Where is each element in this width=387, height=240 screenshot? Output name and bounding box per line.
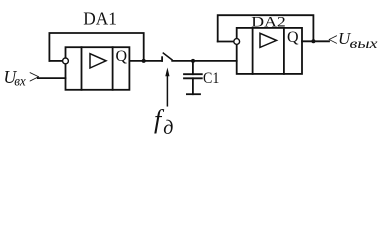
svg-text:DA1: DA1: [83, 8, 117, 28]
svg-text:>: >: [28, 66, 42, 88]
svg-text:Q: Q: [287, 29, 299, 46]
svg-text:C1: C1: [203, 70, 219, 87]
svg-text:DA2: DA2: [251, 15, 285, 31]
svg-text:вх: вх: [14, 74, 26, 89]
svg-text:Q: Q: [116, 48, 128, 65]
svg-text:<: <: [327, 29, 339, 49]
svg-text:д: д: [163, 117, 173, 139]
svg-text:вых: вых: [350, 36, 378, 51]
